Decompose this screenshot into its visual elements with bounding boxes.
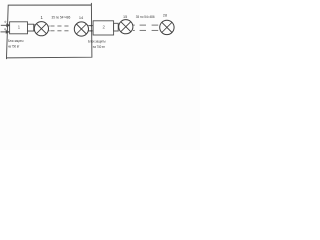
wire pair box1 tab to lamp EL1 xyxy=(28,25,35,31)
caption block 2 line 1 xyxy=(88,39,106,44)
supply arrowheads into box2 xyxy=(91,25,93,32)
svg-text:15: 15 xyxy=(123,15,127,19)
svg-text:35 по 54=486: 35 по 54=486 xyxy=(52,15,71,19)
svg-text:Блок защиты: Блок защиты xyxy=(8,38,24,43)
dashed wire pair EL15 to EL28 xyxy=(133,25,158,30)
panel frame (group 1 boundary) xyxy=(7,3,92,59)
box2 output tab xyxy=(114,23,119,31)
wire pair EL14 to box2 xyxy=(88,26,93,31)
lamp EL15 xyxy=(119,20,133,34)
svg-text:на 750 вт: на 750 вт xyxy=(8,44,20,49)
svg-text:35 по 54=486: 35 по 54=486 xyxy=(136,15,155,19)
svg-text:Блок защиты: Блок защиты xyxy=(88,39,106,44)
protection block 2 xyxy=(93,21,114,35)
supply arrow N into box1 xyxy=(1,31,9,33)
lamp EL28 xyxy=(160,20,174,34)
svg-text:28: 28 xyxy=(163,14,167,18)
dashed wire pair EL1 to EL14 xyxy=(49,26,69,31)
caption block 2 line 2 xyxy=(93,44,105,49)
protection block 1 xyxy=(10,22,28,34)
lamp EL1 xyxy=(34,22,48,36)
svg-text:на 750 вт: на 750 вт xyxy=(93,44,105,49)
lamp EL14 xyxy=(74,22,88,36)
svg-text:1: 1 xyxy=(18,25,21,30)
supply arrow L1 into box1 xyxy=(1,24,10,26)
box1 output tab xyxy=(28,24,34,31)
